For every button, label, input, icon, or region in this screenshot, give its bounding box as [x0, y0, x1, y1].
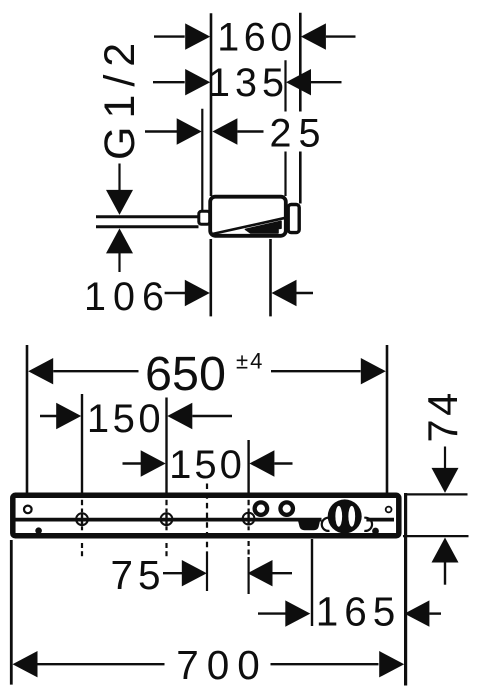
extension line: 135 right ref: [284, 60, 286, 196]
svg-text:25: 25: [270, 112, 328, 156]
hole 2 centerline dashes: [165, 500, 167, 505]
right pin dot: [372, 528, 379, 535]
right hanger ring: [386, 507, 392, 513]
dimension 25: [145, 130, 178, 132]
svg-text:150: 150: [87, 397, 164, 441]
svg-text:±4: ±4: [236, 349, 264, 374]
extension line: hole 2: [165, 398, 167, 498]
G1/2 leader + connection size arrows: [118, 164, 120, 191]
extension line: 650 right ref: [386, 345, 389, 503]
74 bottom ref line: [403, 535, 469, 537]
shower holder cup: [298, 519, 321, 531]
dimension 150 (first): [40, 415, 58, 417]
extension line: wall plate face (160/135 left ref, 25 right ref): [210, 13, 213, 196]
700 left ref line: [10, 540, 13, 685]
dimension 650 +/-4: [28, 358, 53, 384]
supply pipes (G1/2 connection): [96, 215, 199, 218]
svg-text:165: 165: [316, 589, 402, 635]
svg-text:106: 106: [84, 275, 171, 319]
fixture: right attachment: [288, 205, 299, 233]
extension line: hole 3: [247, 440, 249, 497]
fixture: holder cradle blob: [246, 221, 282, 233]
left pin dot: [35, 527, 42, 534]
svg-text:75: 75: [110, 552, 165, 598]
74 dimension arrows: [444, 447, 446, 469]
right edge line / 700-165 right ref: [404, 493, 407, 686]
fixture: diagonal shower holder line: [212, 218, 286, 234]
thermostat button ring A: [253, 500, 270, 517]
extension line: 160 right ref: [299, 13, 302, 204]
svg-text:74: 74: [419, 389, 466, 442]
knob right ear: [364, 518, 372, 531]
hole 3 centerline dashes: [248, 500, 250, 505]
fixture: left wall tab: [199, 211, 210, 224]
svg-text:650: 650: [145, 347, 226, 401]
dimension 135: [153, 81, 185, 83]
left hanger ring: [24, 506, 32, 514]
knob left ear: [322, 518, 330, 531]
mounting hole 2: [161, 513, 173, 525]
G1/2 label (rotated): [96, 35, 144, 160]
svg-text:700: 700: [176, 642, 268, 688]
extension line: hole 1: [81, 394, 83, 497]
dimension 165: [258, 612, 286, 614]
wall bar body: [13, 495, 399, 536]
extension line: left face (25 dim left ref): [201, 109, 203, 210]
extension line: 650 left ref: [26, 345, 29, 502]
dimension 160: [154, 35, 185, 37]
hole 1 centerline dashes: [81, 500, 83, 505]
svg-text:G1/2: G1/2: [96, 35, 144, 160]
svg-text:135: 135: [208, 61, 289, 105]
mounting hole 1: [76, 513, 88, 525]
extension lines below fixture (106 refs): [210, 239, 213, 316]
svg-text:150: 150: [169, 443, 245, 487]
fixture: main body: [210, 197, 286, 236]
mounting hole 3: [243, 513, 255, 525]
dimension 700: [13, 651, 38, 677]
bar centerline (dashed): [206, 484, 208, 554]
bar inner front edge line: [16, 518, 322, 522]
select knob: [328, 499, 362, 533]
74 top ref line: [406, 493, 468, 495]
white gap behind 25 text: [264, 112, 322, 152]
svg-text:160: 160: [217, 16, 296, 60]
74 label (rotated): [419, 389, 466, 442]
holder centerline (165 left ref): [311, 539, 313, 626]
dimension 150 (second): [123, 462, 142, 464]
thermostat button ring B: [278, 500, 295, 517]
